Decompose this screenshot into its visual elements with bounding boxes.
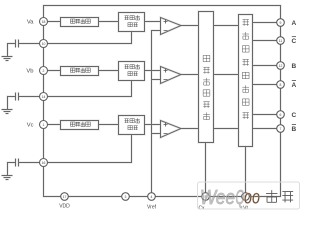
svg-text:B: B	[292, 63, 297, 70]
svg-text:B: B	[292, 126, 297, 133]
svg-text:Vc: Vc	[27, 123, 34, 129]
svg-text:Va: Va	[27, 20, 34, 26]
svg-text:9: 9	[280, 21, 282, 25]
svg-text:Vb: Vb	[26, 69, 33, 75]
svg-text:C: C	[292, 112, 297, 119]
svg-text:Vref: Vref	[147, 205, 157, 211]
svg-text:11: 11	[279, 39, 283, 43]
svg-text:6: 6	[280, 113, 282, 117]
svg-text:17: 17	[63, 195, 67, 199]
svg-text:C: C	[292, 38, 297, 45]
svg-text:18: 18	[42, 20, 46, 24]
svg-text:10: 10	[42, 42, 46, 46]
svg-text:12: 12	[279, 64, 283, 68]
svg-text:Wee: Wee	[200, 187, 235, 209]
svg-text:VDD: VDD	[59, 204, 70, 210]
svg-text:8: 8	[280, 83, 282, 87]
svg-text:16: 16	[42, 161, 46, 165]
svg-text:oo: oo	[244, 188, 260, 209]
svg-text:2: 2	[43, 69, 45, 73]
svg-text:3: 3	[125, 195, 127, 199]
svg-text:A: A	[292, 82, 297, 89]
svg-text:7: 7	[280, 127, 282, 131]
svg-text:A: A	[292, 20, 297, 27]
svg-text:1: 1	[43, 123, 45, 127]
svg-text:14: 14	[42, 95, 46, 99]
svg-text:4: 4	[151, 195, 153, 199]
